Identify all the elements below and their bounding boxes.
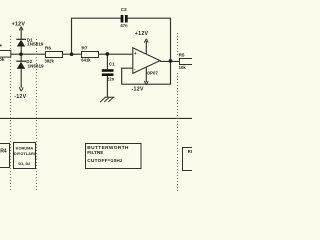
diode D1 (16, 38, 43, 47)
capacitor C1 (102, 61, 115, 81)
divider line horizontal (0, 117, 192, 119)
svg-text:-12V: -12V (132, 87, 144, 93)
wire C1 top (106, 54, 108, 69)
svg-text:C2: C2 (121, 7, 127, 12)
svg-text:+12V: +12V (12, 22, 26, 28)
svg-text:+: + (134, 52, 137, 57)
svg-text:641k: 641k (81, 58, 91, 63)
svg-text:R6: R6 (45, 46, 51, 51)
ground (100, 97, 114, 102)
svg-text:22n: 22n (107, 76, 115, 81)
svg-text:D1, D2: D1, D2 (18, 161, 31, 166)
wire feedback loop (122, 61, 171, 84)
svg-text:+12V: +12V (135, 31, 149, 37)
svg-text:-12V: -12V (14, 94, 26, 100)
svg-text:1N5819: 1N5819 (28, 64, 45, 69)
capacitor C2 (120, 7, 128, 28)
svg-text:1N5819: 1N5819 (27, 42, 44, 47)
svg-text:R8: R8 (188, 149, 192, 154)
section divider dotted left (10, 36, 12, 192)
node B junction (70, 52, 74, 56)
section divider dotted middle (36, 39, 38, 192)
wire node A to D2 (20, 54, 22, 61)
power -12V (clamp) (14, 87, 26, 99)
wire C1 bottom to ground (106, 76, 108, 98)
node A junction (19, 52, 23, 56)
annotation box R4 (0, 144, 10, 168)
svg-text:C1: C1 (109, 61, 115, 66)
wire output to R5 (160, 60, 180, 62)
svg-text:CUTOFF=10Hz: CUTOFF=10Hz (87, 158, 123, 163)
diode D2 (16, 59, 44, 69)
wire node B up to C2 line (72, 18, 121, 54)
svg-text:R4: R4 (0, 149, 7, 155)
power +12V (op-amp) (135, 31, 149, 43)
wire C2 right to output corner (128, 18, 171, 61)
wire D1 anode to node A (20, 46, 22, 54)
annotation box right (cut off) (183, 148, 197, 171)
section divider dotted right upper (177, 33, 179, 56)
svg-text:DIYOTLARI: DIYOTLARI (14, 151, 35, 156)
power -12V (op-amp) (132, 81, 149, 93)
svg-text:10k: 10k (179, 65, 187, 70)
svg-text:R7: R7 (82, 46, 88, 51)
svg-text:FILTRE: FILTRE (87, 150, 103, 155)
svg-text:10k: 10k (0, 57, 5, 63)
node C junction (105, 52, 109, 56)
resistor R4 (left, cut off) (0, 45, 11, 63)
wire op-amp +12V supply (145, 41, 147, 54)
resistor R5 (179, 53, 194, 70)
power +12V (clamp) (12, 22, 26, 31)
wire +12V arrow to D1 (20, 29, 22, 40)
output node junction (169, 59, 173, 63)
resistor R7 (81, 46, 98, 63)
wire op-amp -12V supply (145, 67, 147, 82)
svg-text:R5: R5 (179, 53, 185, 58)
section divider dotted right lower (177, 73, 179, 192)
svg-text:47n: 47n (120, 23, 128, 28)
resistor R6 (45, 46, 63, 64)
svg-text:382k: 382k (45, 58, 55, 63)
annotation box KORUMA DIYOTLARI (14, 143, 36, 169)
svg-text:KORUMA: KORUMA (16, 145, 34, 150)
wire D2 to -12V arrow (20, 69, 22, 88)
wire main horizontal (11, 53, 133, 55)
annotation box BUTTERWORTH FILTRE (86, 144, 142, 169)
svg-text:OP07: OP07 (147, 71, 159, 76)
op-amp U1 OP07 (133, 48, 160, 76)
